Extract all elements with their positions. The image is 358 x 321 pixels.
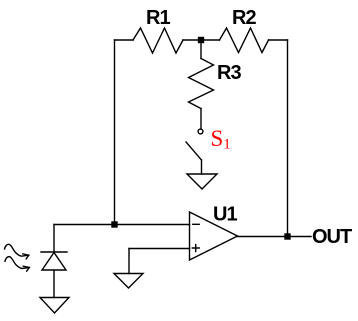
wire lever to ground: [201, 160, 203, 174]
svg-text:R2: R2: [232, 7, 256, 29]
resistor R1: [133, 28, 183, 53]
wire right rail: [287, 40, 289, 237]
svg-text:OUT: OUT: [312, 226, 352, 248]
op-amp U1 minus sign: [193, 223, 199, 225]
node junction output / right rail: [284, 233, 290, 239]
wire R1 to R2: [183, 39, 220, 41]
wire inverting input horizontal: [54, 224, 190, 226]
ground below photodiode: [40, 298, 69, 314]
op-amp U1 plus sign: [192, 245, 199, 252]
switch S1 contact circle: [198, 129, 203, 134]
wire R3 to switch contact: [200, 109, 202, 130]
svg-text:S1: S1: [211, 126, 231, 153]
resistor R2: [220, 28, 269, 53]
wire node to R3: [200, 40, 202, 59]
photodiode D1 cathode bar: [41, 251, 67, 253]
wire left rail: [114, 40, 116, 225]
wire R2 to right corner: [269, 39, 288, 41]
wire photodiode to ground: [53, 270, 55, 298]
wire photodiode stem top: [53, 225, 55, 253]
light arrow 2 head: [23, 266, 29, 271]
resistor R3: [189, 59, 214, 109]
light arrow 1 head: [23, 254, 29, 259]
svg-text:R1: R1: [146, 7, 170, 29]
light arrow 1: [5, 244, 29, 256]
wire non-inverting input: [129, 248, 190, 250]
ground below op-amp plus input: [114, 274, 143, 289]
op-amp U1 triangle: [190, 212, 238, 260]
light arrow 2: [5, 257, 29, 269]
svg-text:U1: U1: [213, 204, 237, 226]
node junction left rail / inverting input: [111, 221, 117, 227]
wire op-amp output: [238, 236, 312, 238]
node junction R1/R2/R3: [198, 37, 204, 43]
wire plus input to ground: [128, 249, 130, 274]
switch S1 lever: [186, 142, 202, 160]
svg-text:R3: R3: [217, 62, 241, 84]
wire top-left horizontal: [115, 39, 134, 41]
photodiode D1 triangle: [42, 253, 66, 271]
ground below switch: [187, 174, 217, 189]
